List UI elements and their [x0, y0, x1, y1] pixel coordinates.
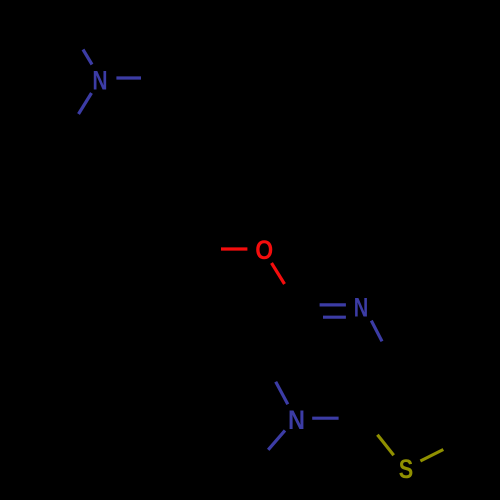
- svg-text:S: S: [399, 454, 414, 484]
- svg-text:O: O: [255, 235, 273, 265]
- svg-text:N: N: [288, 405, 305, 435]
- svg-text:N: N: [354, 293, 369, 323]
- svg-text:N: N: [92, 66, 107, 96]
